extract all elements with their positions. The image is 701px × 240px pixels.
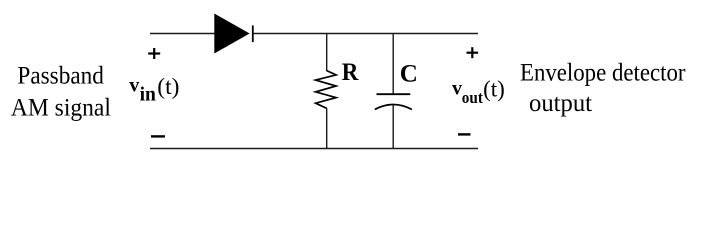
label Envelope detector output — [520, 60, 686, 118]
minus sign input terminal — [151, 135, 165, 137]
wire resistor branch upper — [326, 34, 328, 72]
plus sign output terminal — [467, 47, 479, 58]
svg-text:C: C — [400, 60, 418, 87]
svg-text:AM signal: AM signal — [11, 95, 111, 122]
plus sign input terminal — [148, 48, 160, 59]
wire capacitor branch upper — [392, 34, 394, 95]
svg-text:v: v — [129, 75, 139, 97]
svg-text:output: output — [529, 90, 592, 117]
minus sign output terminal — [458, 133, 471, 135]
svg-text:(t): (t) — [483, 76, 505, 101]
svg-text:R: R — [342, 59, 359, 86]
diode D1 — [214, 14, 253, 54]
wire input (anode side of top rail) — [150, 33, 216, 35]
svg-text:out: out — [462, 88, 483, 107]
label Passband AM signal — [11, 63, 111, 122]
svg-text:(t): (t) — [157, 74, 179, 100]
svg-text:in: in — [140, 85, 156, 106]
wire capacitor branch lower — [392, 104, 394, 148]
svg-text:Passband: Passband — [17, 63, 104, 90]
capacitor C — [375, 94, 412, 109]
wire bottom rail — [150, 148, 478, 150]
label R — [342, 59, 359, 86]
label C — [400, 60, 418, 87]
resistor R — [316, 71, 337, 109]
svg-text:v: v — [452, 77, 462, 99]
svg-text:Envelope detector: Envelope detector — [520, 60, 686, 87]
label vout(t) — [452, 76, 505, 107]
label vin(t) — [129, 74, 179, 106]
wire top rail (cathode to output) — [253, 33, 478, 35]
wire resistor branch lower — [326, 108, 328, 148]
